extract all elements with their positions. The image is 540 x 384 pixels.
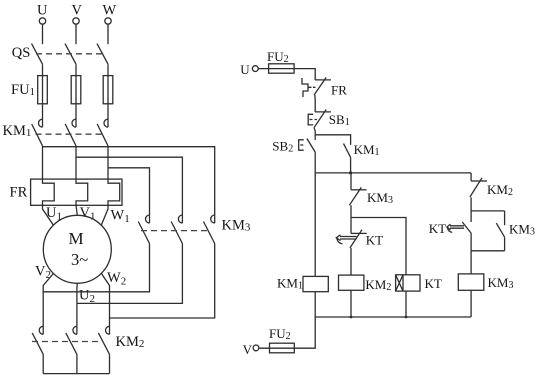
- wire KM3 pole3 to W2 line: [110, 244, 215, 319]
- wire FR to motor W1: [101, 205, 108, 225]
- KM2 NC contact bar: [471, 180, 487, 182]
- svg-text:V: V: [72, 3, 83, 19]
- wire KM2 NC to split: [470, 197, 472, 211]
- KM2 linkage dashed line: [32, 341, 102, 343]
- wire U terminal through FU2: [258, 69, 315, 80]
- KT delay arrow tail: [337, 239, 343, 244]
- fuse FU2 (bottom): [270, 343, 295, 353]
- SB2 button cap: [299, 140, 304, 150]
- KM1 aux NO blade: [344, 144, 351, 158]
- rejoin horizontal: [471, 250, 505, 252]
- KM2 contact arc pole 3: [106, 326, 110, 334]
- wire KM1 coil to bus B: [314, 292, 316, 317]
- SB1 cap dashed link: [310, 119, 318, 121]
- junction dot KT coil / bus B: [405, 316, 408, 319]
- QS linkage dashed line: [36, 53, 102, 55]
- wire FR to motor V1: [76, 205, 77, 215]
- FR outline box: [31, 179, 122, 205]
- SB2 upper wire: [314, 135, 316, 140]
- KM1 linkage dashed line: [36, 133, 105, 135]
- SB1 NC contact bar: [315, 111, 331, 113]
- KM1 blade pole 2: [65, 124, 76, 146]
- fuse FU1 pole 2: [71, 76, 81, 104]
- wire motor V2 down: [43, 273, 53, 334]
- control U terminal circle: [252, 66, 258, 72]
- KM3 linkage dashed line: [141, 230, 211, 232]
- KT right arrow tail: [447, 228, 452, 233]
- KM3 right blade: [496, 223, 504, 237]
- wire motor W2 down: [101, 273, 109, 334]
- coil KM2: [339, 275, 364, 290]
- SB1 button cap: [308, 114, 313, 125]
- wire motor U2 down: [76, 283, 78, 334]
- wire FU2 bottom to V terminal: [259, 347, 294, 349]
- wire KM2 pole2 to delta bus: [76, 354, 78, 373]
- svg-text:KT: KT: [429, 221, 446, 236]
- wire KM3 right contact down: [504, 237, 506, 251]
- wire branch phase2 to KM3 pole2: [76, 157, 182, 223]
- QS blade pole 2: [65, 44, 76, 65]
- KM2 blade pole 3: [98, 333, 109, 354]
- wire QS to FU1 pole3: [107, 64, 109, 127]
- wire KM1 pole1 down to FR: [42, 146, 44, 179]
- terminal circle U: [39, 18, 45, 24]
- wire KM2 pole3 to delta bus: [109, 354, 111, 373]
- svg-text:FR: FR: [331, 83, 347, 98]
- KM3 contact arc pole 1: [146, 215, 150, 223]
- terminal circle W: [105, 18, 111, 24]
- KM3 NC blade: [349, 187, 361, 205]
- svg-text:KT: KT: [425, 276, 442, 291]
- KT delay arrow: [336, 235, 356, 241]
- SB2 blade: [307, 139, 315, 153]
- wire KM3 pole2 to U2 line: [77, 244, 182, 304]
- wire KT right contact down: [470, 233, 472, 251]
- wire to KM3 NO right: [504, 211, 506, 225]
- wire branch phase3 to KM3 pole1: [108, 168, 150, 223]
- wire to KT right contact: [470, 211, 472, 222]
- KM2 blade pole 1: [32, 333, 43, 354]
- QS blade pole 1: [32, 44, 43, 65]
- wire KT contact to KM2 coil: [350, 248, 352, 275]
- coil KT with delay element: [396, 275, 420, 291]
- KM1 contact arc pole 1: [39, 119, 43, 127]
- wire KM1 pole2 down to FR: [75, 146, 77, 179]
- wire KM1 aux to bus A: [350, 157, 352, 173]
- svg-text:3~: 3~: [71, 250, 88, 269]
- KT right delay arrow: [447, 224, 464, 230]
- delta shorting bus: [43, 373, 109, 375]
- wire SB1 to junction: [314, 128, 315, 135]
- wire W terminal to QS: [107, 24, 109, 44]
- wire KM3 coil to bus B: [470, 290, 472, 317]
- KM3 blade pole 2: [171, 222, 182, 244]
- wire V terminal to QS: [75, 24, 77, 44]
- motor M circle: [43, 215, 111, 283]
- KT delayed contact bar: [351, 232, 367, 234]
- split horizontal to KT coil branch: [351, 218, 406, 275]
- wire FR to motor U1: [43, 205, 54, 225]
- KT coil X element: [396, 275, 403, 291]
- KM2 NC blade: [470, 178, 482, 197]
- fuse FU2 (top): [269, 64, 295, 73]
- KM3 contact arc pole 2: [178, 215, 182, 223]
- FR heater element phase 3: [108, 179, 120, 205]
- wire bus B to FU2 bottom: [294, 317, 315, 348]
- KT right delayed blade: [462, 222, 471, 233]
- bus B horizontal: [315, 316, 471, 318]
- wire bus A to KM1 coil: [314, 173, 316, 277]
- wire FR to SB1: [314, 95, 316, 112]
- wire to KM3 coil: [470, 251, 472, 274]
- wire QS to FU1 pole2: [75, 64, 77, 127]
- KM3 contact arc pole 3: [211, 215, 215, 223]
- split horizontal right branch: [471, 210, 505, 212]
- wire KM2 coil to bus B: [350, 290, 352, 317]
- svg-text:U: U: [37, 3, 48, 19]
- coil KM3: [458, 274, 484, 290]
- fuse FU1 pole 3: [103, 76, 113, 104]
- svg-text:M: M: [69, 229, 84, 248]
- KT delayed blade: [350, 230, 362, 248]
- svg-text:KT: KT: [366, 233, 383, 248]
- wire branch to KM1 aux: [315, 135, 350, 145]
- FR heater element phase 2: [76, 179, 88, 205]
- wire SB2 to bus A: [314, 152, 316, 173]
- wire KT coil to bus B: [405, 291, 407, 317]
- wire branch phase1 to KM3 pole3: [43, 147, 215, 223]
- wire bus A to KM2 NC: [470, 173, 472, 181]
- KM2 contact arc pole 2: [73, 326, 77, 334]
- QS blade pole 3: [97, 44, 108, 65]
- coil KM1: [303, 276, 328, 291]
- bus A horizontal: [315, 172, 471, 174]
- FR NC contact bar: [315, 79, 331, 81]
- FR actuator dashed link: [309, 86, 316, 88]
- svg-text:W: W: [103, 3, 117, 19]
- KT coil divider: [402, 275, 404, 291]
- svg-text:FR: FR: [10, 185, 28, 201]
- KM1 contact arc pole 2: [72, 119, 76, 127]
- wire U terminal to QS: [42, 24, 44, 44]
- wire KM2 pole1 to delta bus: [42, 354, 44, 373]
- svg-text:U: U: [240, 62, 250, 77]
- terminal circle V: [73, 18, 79, 24]
- SB2 cap dashed link: [300, 144, 304, 146]
- junction dot KM2 coil / bus B: [350, 316, 353, 319]
- KM1 contact arc pole 3: [104, 119, 108, 127]
- fuse FU1 pole 1: [38, 76, 48, 104]
- KM3 blade pole 3: [204, 222, 215, 244]
- junction dot KM1 aux / bus A: [349, 171, 352, 174]
- KM2 contact arc pole 1: [39, 326, 43, 334]
- FR NC blade: [314, 77, 326, 95]
- wire split to KT contact: [350, 218, 352, 234]
- wire bus A to KM3 NC: [350, 173, 352, 190]
- FR heater element phase 1: [43, 179, 55, 205]
- KM3 NC contact bar: [351, 189, 367, 191]
- SB1 blade: [314, 110, 326, 128]
- wire QS to FU1 pole1: [42, 64, 44, 127]
- FR thermal actuator bracket: [302, 78, 308, 97]
- wire KM1 pole3 down to FR: [107, 146, 109, 179]
- svg-text:QS: QS: [12, 45, 31, 61]
- svg-text:V: V: [243, 342, 253, 357]
- KM3 blade pole 1: [138, 222, 149, 244]
- KM1 blade pole 1: [32, 124, 43, 146]
- KM2 blade pole 2: [66, 333, 77, 354]
- wire KM3 NC to split: [350, 205, 352, 217]
- KM1 blade pole 3: [97, 124, 108, 146]
- wire KM3 pole1 to V2 line: [43, 244, 149, 292]
- control V terminal circle: [253, 345, 259, 351]
